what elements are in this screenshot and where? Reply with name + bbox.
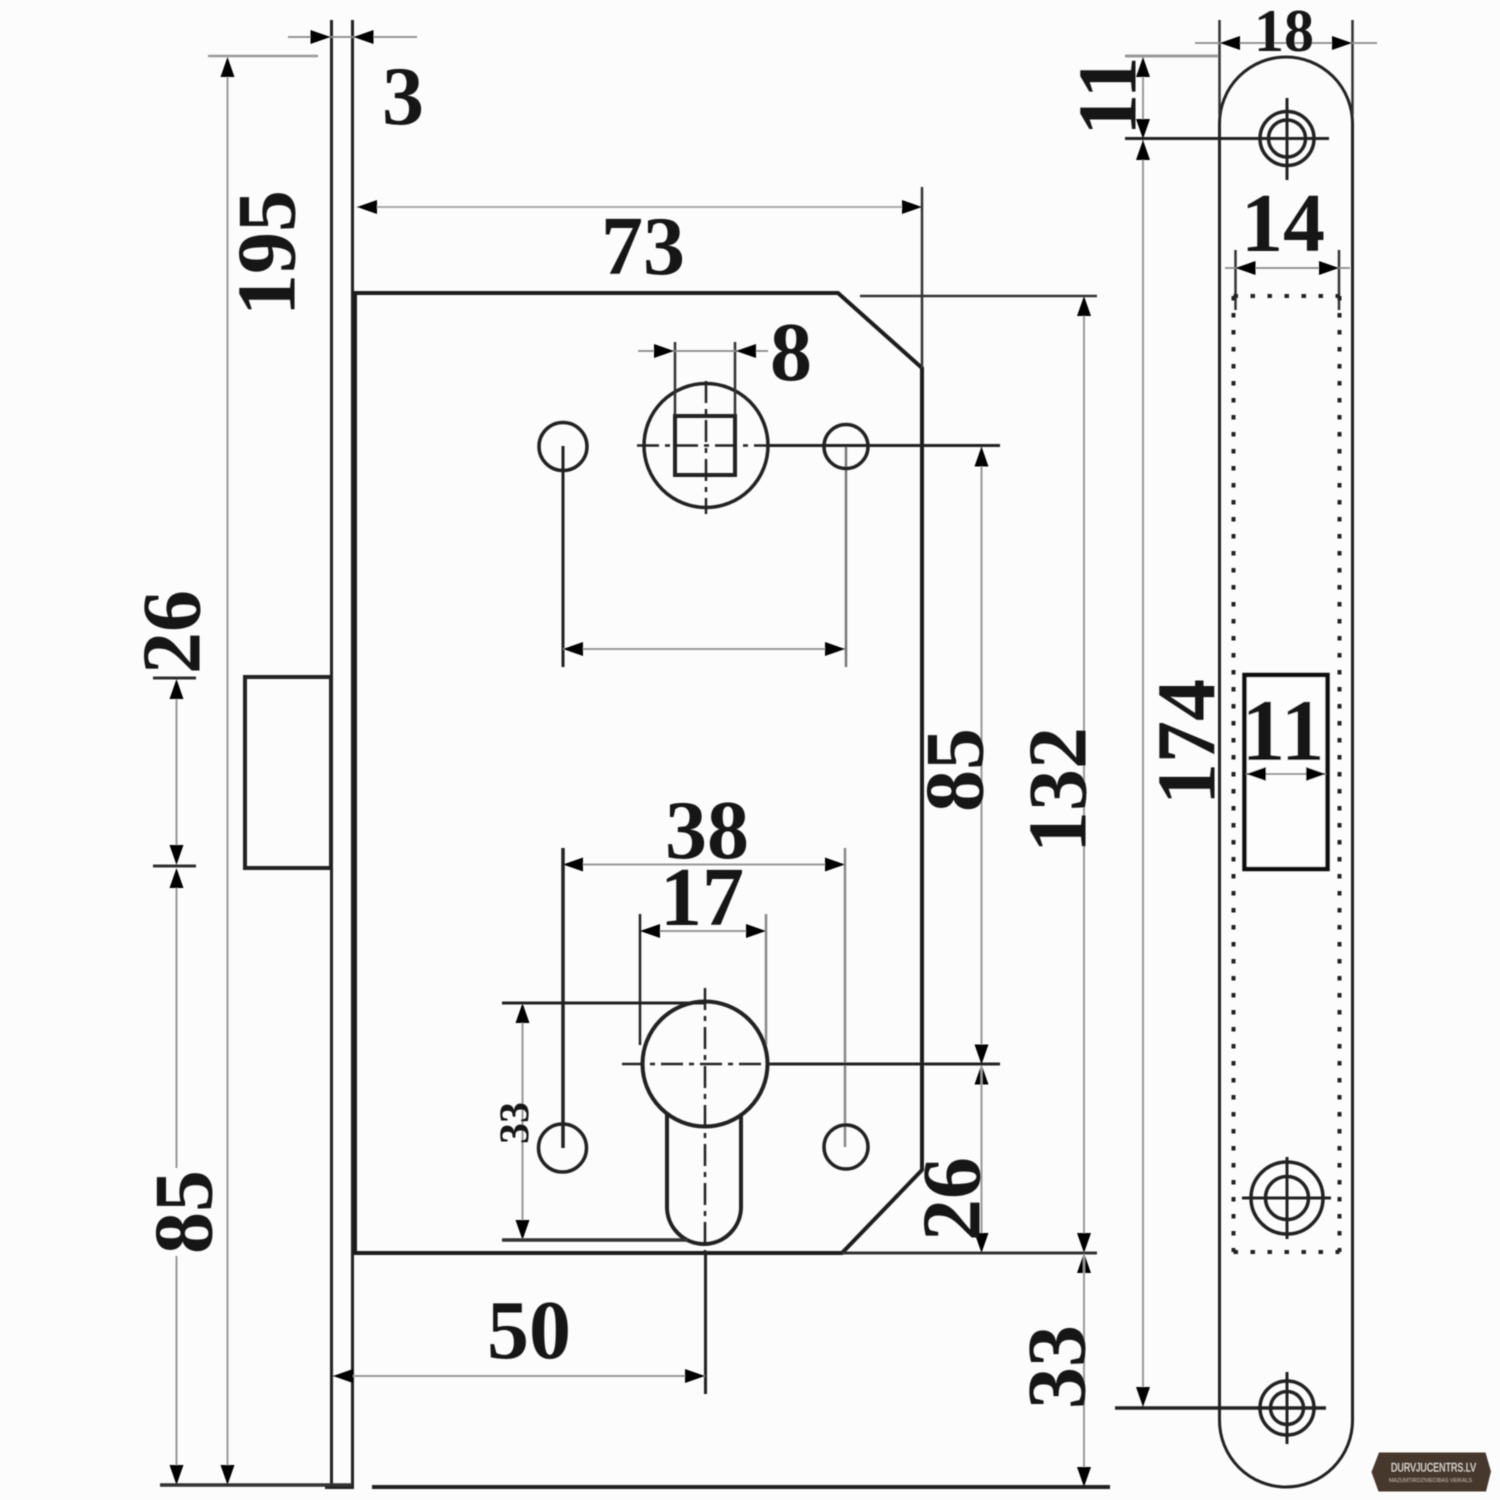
dim 195 top arrow: [221, 57, 235, 77]
dim 18 left arrow: [1220, 36, 1240, 50]
spindle square: [675, 416, 735, 475]
svg-text:MAZUMTIRDZNIECIBAS VEIKALS: MAZUMTIRDZNIECIBAS VEIKALS: [1389, 1478, 1473, 1484]
dim 14 left arrow: [1236, 261, 1256, 275]
dim 8 line: [638, 350, 768, 352]
svg-text:50: 50: [487, 1284, 571, 1377]
svg-text:DURVJUCENTRS.LV: DURVJUCENTRS.LV: [1391, 1461, 1476, 1475]
plate right extension: [1351, 20, 1354, 115]
lower-right hole: [824, 1125, 868, 1169]
case bottom extension to 132: [842, 1252, 1097, 1255]
dim 17 left extension: [639, 914, 642, 1045]
dim 195 top extension line: [208, 55, 318, 58]
top-left hole: [539, 423, 587, 471]
top-right hole: [824, 425, 868, 469]
mid screw vertical centerline: [1286, 1157, 1289, 1239]
dim 132 line: [1083, 297, 1085, 1252]
svg-text:174: 174: [1140, 679, 1233, 805]
dim 174 top arrow: [1136, 140, 1150, 160]
dim 38 left extension / lower-left hole leader: [561, 848, 565, 1148]
dim 38 right arrow: [825, 858, 845, 872]
svg-text:3: 3: [382, 50, 424, 143]
dim 26 left tick bottom: [153, 865, 196, 868]
svg-text:17: 17: [660, 851, 744, 944]
euro cylinder stem right: [739, 1114, 743, 1207]
svg-text:33: 33: [1010, 1325, 1103, 1409]
euro cylinder bottom cap: [667, 1207, 741, 1244]
dashed cutout bottom: [1234, 1250, 1340, 1254]
svg-text:11: 11: [1241, 683, 1324, 780]
mid screw inner circle: [1266, 1177, 1309, 1220]
svg-text:85: 85: [908, 728, 1001, 812]
dim 14 right arrow: [1319, 261, 1339, 275]
svg-text:8: 8: [770, 306, 812, 399]
dim 33 small top arrow: [516, 1003, 530, 1023]
bottom baseline: [372, 1485, 1110, 1489]
dim 85 left top arrow: [170, 868, 184, 888]
lock case outline: [355, 293, 922, 1253]
dim 132 bottom hourglass: [1077, 1233, 1091, 1253]
dim 8 right arrow: [736, 344, 756, 358]
dim 18 line: [1195, 42, 1377, 44]
dim 38 line: [563, 864, 845, 866]
spindle centerline horizontal solid: [770, 444, 1000, 447]
spindle centerline horizontal dashdot: [637, 444, 770, 447]
dim 26 left top arrow: [170, 679, 184, 699]
svg-text:26: 26: [125, 590, 218, 674]
lower-left hole: [539, 1124, 587, 1172]
slot dim line: [1246, 773, 1326, 775]
dim 14 line: [1225, 267, 1350, 269]
bottom screw vertical centerline: [1286, 1372, 1289, 1444]
dim 73 line: [357, 206, 922, 208]
dim 85 left line: [176, 869, 178, 1168]
top holes dim left arrow: [563, 642, 583, 656]
dim 26 left tick top: [153, 677, 196, 680]
top screw centerline: [1125, 137, 1329, 140]
dim 26 right bottom arrow: [975, 1233, 989, 1253]
dim 50 line: [333, 1375, 705, 1377]
dim 73 right arrow: [902, 200, 922, 214]
dim 38 right extension / lower-right hole leader: [844, 848, 847, 1147]
dim 50 right arrow: [685, 1369, 705, 1383]
spindle circle: [644, 384, 768, 508]
svg-text:132: 132: [1011, 727, 1104, 853]
dim 26 right line: [981, 1065, 983, 1252]
svg-text:195: 195: [220, 190, 313, 316]
dim 18 right arrow: [1332, 36, 1352, 50]
mid screw outer circle: [1251, 1162, 1323, 1234]
slot dim left arrow: [1246, 767, 1266, 781]
top-left hole leader: [562, 446, 565, 667]
faceplate right edge line: [351, 20, 354, 1487]
dim 73 right extension: [921, 187, 924, 368]
dim 33 small bottom extension: [502, 1238, 688, 1242]
dim 8 left arrow: [654, 344, 674, 358]
top screw outer circle: [1260, 112, 1314, 166]
svg-text:33: 33: [493, 1102, 539, 1144]
latch bolt: [245, 677, 331, 868]
dim 17 left arrow: [640, 924, 660, 938]
faceplate left edge line: [330, 20, 333, 1487]
dim 174 line: [1142, 140, 1144, 1407]
cylinder centerline vertical solid: [704, 1253, 707, 1394]
dim 17 line: [640, 930, 766, 932]
watermark badge: [1372, 1453, 1492, 1492]
dim 26 left line: [176, 680, 178, 864]
square extension right: [734, 342, 737, 415]
cylinder centerline horizontal dashdot: [622, 1063, 770, 1066]
dim 50 left arrow: [333, 1369, 353, 1383]
dim 33 right bottom arrow: [1077, 1467, 1091, 1487]
bottom screw inner circle: [1271, 1392, 1304, 1425]
bottom screw centerline: [1115, 1406, 1326, 1410]
dim 33 small bottom arrow: [516, 1220, 530, 1240]
dim 33 small top extension: [502, 1002, 705, 1005]
plate left extension: [1218, 20, 1221, 115]
svg-text:73: 73: [601, 200, 685, 293]
spindle centerline vertical: [705, 381, 708, 514]
faceplate outline: [1220, 57, 1353, 1487]
square extension left: [674, 342, 677, 415]
dim 132 top arrow: [1077, 296, 1091, 316]
euro cylinder stem left: [665, 1114, 669, 1207]
dim 85 right line: [981, 447, 983, 1064]
dim 11 top arrow: [1136, 57, 1150, 77]
top holes dim right arrow: [825, 642, 845, 656]
dim 33 small line: [522, 1004, 524, 1239]
dim 38 left arrow: [563, 858, 583, 872]
svg-text:18: 18: [1254, 0, 1314, 64]
dim 195 line: [227, 58, 229, 1484]
bottom screw outer circle: [1260, 1381, 1314, 1435]
dim 11 top extension: [1125, 55, 1218, 58]
dim 85 left bottom arrow: [170, 1465, 184, 1485]
top-right hole leader: [845, 447, 848, 667]
slot dim right arrow: [1306, 767, 1326, 781]
dashed cutout left: [1232, 296, 1236, 1252]
dim 14 left extension: [1234, 250, 1237, 310]
svg-text:14: 14: [1241, 177, 1325, 270]
top screw inner circle: [1269, 120, 1306, 157]
dim 26 left bottom arrow: [170, 845, 184, 865]
dim 3 left arrow: [311, 30, 331, 44]
cylinder centerline horizontal solid: [770, 1063, 1000, 1066]
dim 3 right arrow: [354, 30, 374, 44]
dim 85 right top arrow: [975, 447, 989, 467]
mid screw horizontal centerline: [1242, 1197, 1331, 1200]
dim 11 bottom arrow: [1136, 119, 1150, 139]
dim 85 right bottom hourglass: [975, 1045, 989, 1065]
bottom-left baseline: [160, 1483, 352, 1487]
dim 17 right extension: [765, 914, 768, 1045]
latch slot: [1245, 675, 1328, 869]
dim 73 left arrow: [357, 200, 377, 214]
euro cylinder circle: [643, 1002, 768, 1127]
faceplate bottom cap: [325, 1485, 354, 1489]
top holes dim line: [563, 648, 845, 650]
svg-text:85: 85: [137, 1170, 230, 1254]
dim 11 line: [1142, 58, 1144, 138]
dim 33 right line: [1083, 1254, 1085, 1486]
dim 17 right arrow: [746, 924, 766, 938]
svg-text:11: 11: [1061, 56, 1154, 135]
dashed cutout top: [1234, 294, 1340, 298]
dim 14 right extension: [1338, 250, 1341, 310]
dashed cutout right: [1338, 296, 1342, 1252]
dim 3 line: [288, 36, 417, 38]
case top extension to 132: [860, 295, 1097, 298]
dim 195 bottom arrow: [221, 1465, 235, 1485]
dim 174 bottom arrow: [1136, 1387, 1150, 1407]
svg-text:26: 26: [905, 1157, 998, 1241]
top screw vertical centerline: [1286, 98, 1289, 180]
cylinder centerline vertical dashdot: [704, 988, 707, 1253]
